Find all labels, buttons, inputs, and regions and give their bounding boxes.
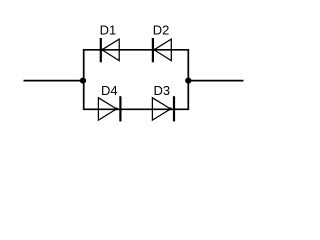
diode D4 (98, 96, 120, 121)
wire: bottom branch horizontal (83, 108, 189, 110)
wire: top branch horizontal (83, 49, 189, 51)
wire: right output lead (188, 80, 243, 82)
node: left junction (80, 78, 86, 84)
diode D3 (152, 96, 174, 121)
diode D2 (153, 38, 171, 62)
wire: left vertical branch (83, 50, 85, 110)
wire: left input lead (24, 80, 84, 82)
wire: right vertical branch (187, 50, 189, 110)
svg-text:D3: D3 (154, 83, 171, 98)
node: right junction (185, 78, 191, 84)
diode D1 (101, 38, 119, 62)
svg-text:D4: D4 (101, 83, 118, 98)
svg-text:D2: D2 (153, 23, 170, 38)
svg-text:D1: D1 (100, 23, 117, 38)
